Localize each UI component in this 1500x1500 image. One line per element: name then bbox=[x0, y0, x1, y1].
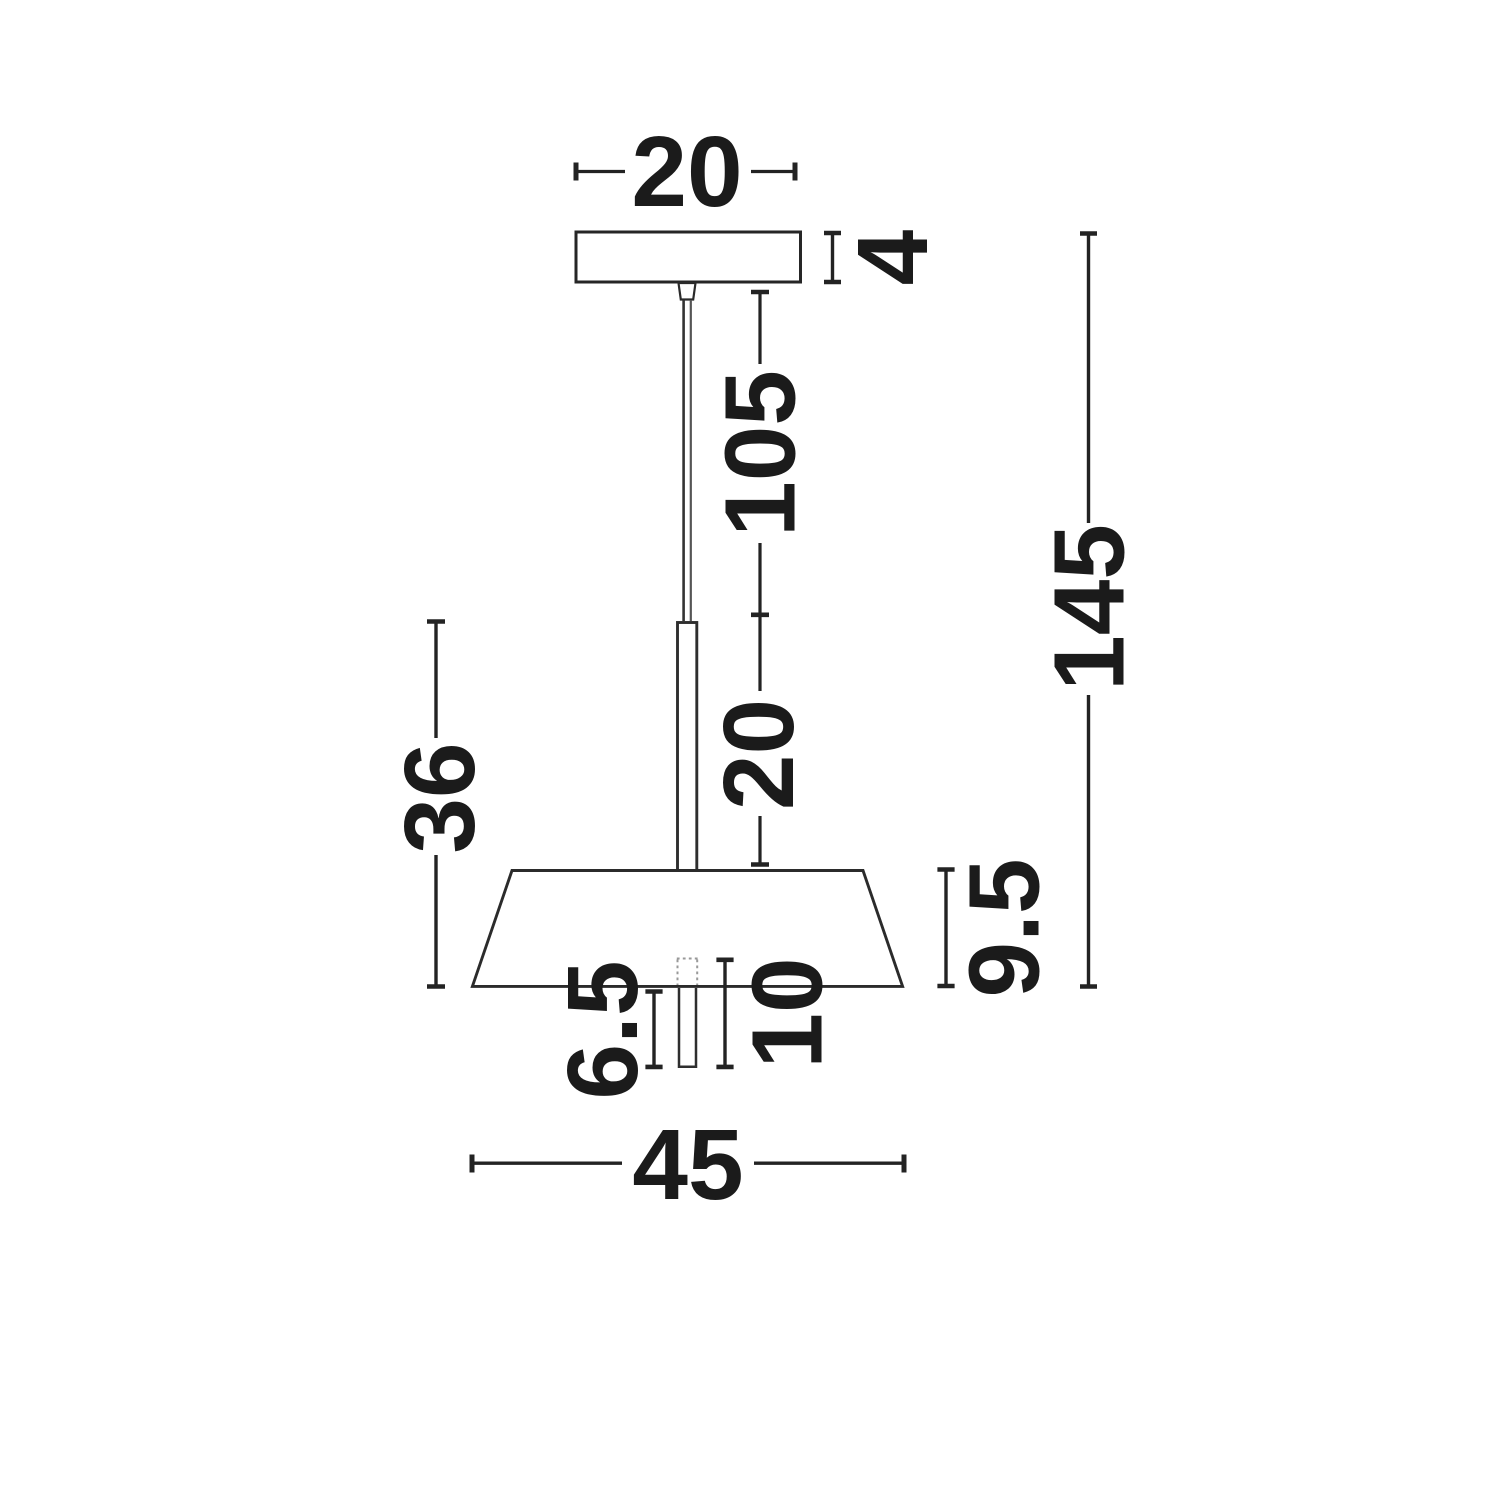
stem rod bbox=[678, 623, 697, 872]
svg-text:6.5: 6.5 bbox=[547, 960, 659, 1099]
hidden stem section (dashed) bbox=[677, 959, 698, 986]
dimension line: canopy thickness 4 bbox=[824, 233, 841, 282]
svg-text:20: 20 bbox=[703, 699, 815, 810]
lower stem tip bbox=[679, 988, 696, 1067]
svg-text:36: 36 bbox=[384, 742, 496, 853]
dimension line: lower stem total 10 bbox=[716, 960, 733, 1067]
cord grip connector bbox=[679, 283, 696, 300]
dimension line: canopy width 20 bbox=[576, 163, 795, 181]
canopy plate bbox=[576, 232, 801, 282]
svg-text:10: 10 bbox=[731, 957, 843, 1068]
dimension line: cable length 105 bbox=[751, 292, 769, 615]
svg-text:9.5: 9.5 bbox=[948, 858, 1060, 997]
dimension line: lower stem visible 6.5 bbox=[645, 992, 662, 1067]
svg-text:45: 45 bbox=[632, 1109, 743, 1221]
svg-text:4: 4 bbox=[837, 229, 949, 285]
dimension line: rod length 20 bbox=[751, 615, 769, 865]
lamp shade bbox=[472, 871, 902, 987]
dimension line: shade diameter 45 bbox=[472, 1155, 904, 1173]
svg-text:145: 145 bbox=[1033, 524, 1145, 691]
dimension line: overall height 145 bbox=[1080, 234, 1097, 987]
dimension line: 36 (rod + shade height) bbox=[427, 622, 445, 987]
dimension line: shade height 9.5 bbox=[937, 870, 954, 987]
svg-text:20: 20 bbox=[631, 116, 742, 228]
suspension cable bbox=[682, 300, 685, 621]
svg-text:105: 105 bbox=[704, 370, 816, 537]
